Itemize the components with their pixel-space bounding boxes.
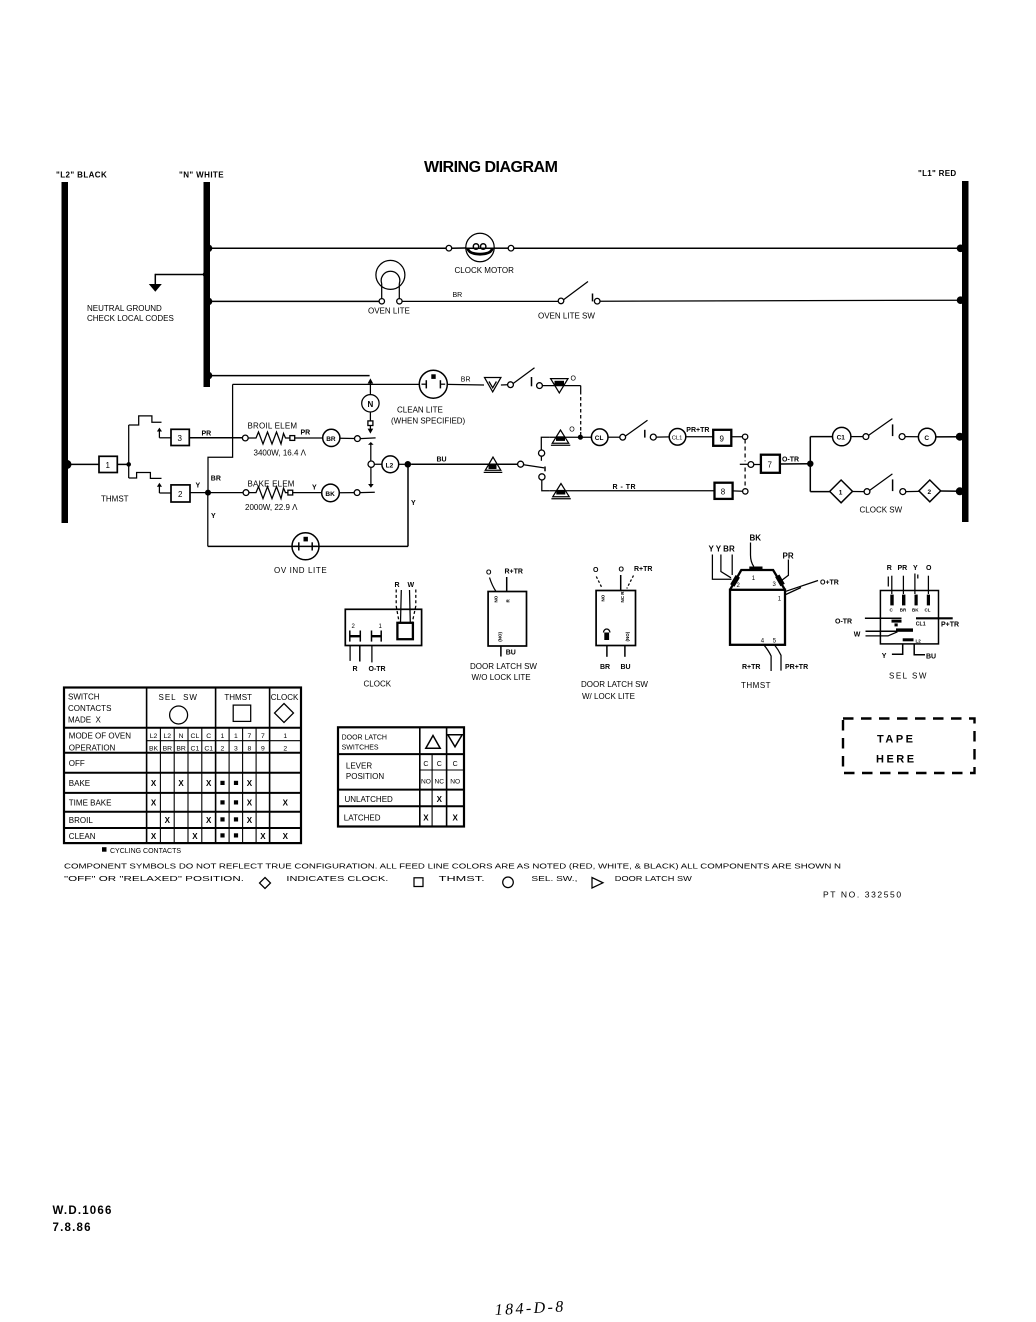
value label 3400W 16.4 ohm	[254, 449, 307, 458]
table door latch switches grid	[338, 727, 464, 826]
svg-text:3400W, 16.4 Λ: 3400W, 16.4 Λ	[254, 449, 307, 458]
svg-text:L2: L2	[916, 638, 922, 643]
contact 3 moving arm arrow	[157, 428, 171, 438]
svg-text:X: X	[247, 799, 253, 808]
svg-text:X: X	[247, 779, 253, 788]
svg-text:NC: NC	[435, 779, 445, 786]
svg-text:O: O	[619, 567, 625, 574]
net L1 bus label	[918, 169, 956, 178]
svg-text:BR: BR	[461, 376, 471, 383]
wire clock motor to L1 bus	[494, 245, 964, 253]
svg-text:R+TR: R+TR	[742, 664, 760, 671]
ground tap wire from N bus	[155, 271, 209, 284]
svg-text:CLOCK MOTOR: CLOCK MOTOR	[455, 266, 515, 275]
table mode sub-row B codes	[149, 746, 287, 753]
ground symbol (neutral ground)	[149, 284, 162, 292]
svg-text:Y: Y	[882, 653, 887, 660]
wire CL1 to box 9	[686, 436, 713, 438]
svg-text:Y: Y	[196, 483, 201, 490]
node L2 circle	[374, 456, 411, 473]
svg-text:BK: BK	[325, 491, 335, 498]
svg-text:BK: BK	[912, 608, 919, 613]
svg-text:CL: CL	[191, 733, 200, 740]
wire clean lite branch node PR	[233, 384, 420, 438]
sel sw upper contact to CL row	[539, 437, 550, 461]
svg-text:1: 1	[379, 624, 383, 630]
svg-text:X: X	[283, 832, 289, 841]
connector box 7	[761, 455, 780, 473]
caption DOOR LATCH SW W/ LOCK LITE	[581, 680, 648, 701]
svg-text:O: O	[926, 565, 932, 572]
receptacle arrow down (element plug)	[368, 467, 374, 487]
svg-text:INDICATES CLOCK.: INDICATES CLOCK.	[286, 874, 388, 883]
svg-text:R: R	[353, 666, 358, 673]
svg-text:CONTACTS: CONTACTS	[68, 704, 111, 713]
svg-text:X: X	[165, 816, 171, 825]
svg-text:BR: BR	[163, 746, 173, 753]
svg-text:HERE: HERE	[876, 754, 917, 766]
contact 2 moving arm arrow	[157, 483, 171, 493]
svg-text:TAPE: TAPE	[877, 734, 916, 746]
label PT NO 332550	[823, 890, 903, 900]
svg-text:NEUTRAL GROUND: NEUTRAL GROUND	[87, 304, 162, 313]
node diamond 1	[830, 480, 853, 503]
net L2 bus label	[56, 171, 107, 180]
svg-text:BU: BU	[506, 650, 516, 657]
connector box 9	[713, 430, 731, 446]
svg-text:SWITCHES: SWITCHES	[342, 745, 379, 752]
svg-text:BK: BK	[750, 534, 762, 543]
svg-text:OFF: OFF	[69, 759, 85, 768]
footnote cycling contacts	[102, 847, 181, 855]
svg-text:2: 2	[221, 746, 225, 753]
svg-text:SEL SW: SEL SW	[889, 672, 928, 681]
clock motor left terminal	[446, 245, 452, 251]
svg-text:"L1" RED: "L1" RED	[918, 169, 956, 178]
svg-text:DOOR LATCH: DOOR LATCH	[342, 735, 387, 742]
label Y (box2 output)	[196, 483, 201, 490]
node CL1 circle	[669, 429, 686, 446]
wire BR node to receptacle	[340, 436, 376, 442]
wire to clock motor	[452, 247, 466, 249]
svg-text:BROIL ELEM: BROIL ELEM	[248, 421, 298, 430]
thermostat contact box 2	[171, 485, 190, 502]
resistor BROIL ELEM	[248, 432, 294, 444]
wire diamond 2 to L1 bus	[941, 487, 964, 495]
door latch switch triangle (clean row, open)	[485, 378, 501, 392]
svg-text:C: C	[924, 435, 929, 442]
svg-text:O: O	[486, 570, 492, 577]
svg-text:DOOR LATCH SW: DOOR LATCH SW	[615, 874, 693, 883]
net N bus (white feed line)	[204, 182, 211, 387]
svg-text:LEVER: LEVER	[346, 761, 372, 770]
svg-text:MADE X: MADE X	[68, 716, 102, 725]
door latch switch triangle (R-TR row)	[551, 484, 570, 499]
svg-text:7: 7	[248, 733, 252, 740]
svg-text:2: 2	[737, 583, 741, 589]
table header CLOCK with diamond symbol	[271, 693, 299, 723]
svg-text:3: 3	[773, 582, 777, 588]
wire to C	[905, 436, 918, 438]
thermostat lead PR	[782, 560, 789, 581]
legend note line 1	[64, 861, 841, 870]
svg-text:O-TR: O-TR	[782, 456, 799, 463]
svg-text:R: R	[506, 599, 511, 603]
svg-text:(NO): (NO)	[498, 632, 503, 642]
door latch sw w lock lite labels	[593, 566, 652, 574]
table header SWITCH CONTACTS MADE X	[68, 693, 111, 725]
wire box1 to capillary junction	[117, 425, 131, 478]
wire to diamond 2	[906, 490, 919, 492]
wire to C1	[810, 436, 832, 438]
node N receptacle arrow up	[368, 378, 374, 394]
node BR circle	[323, 429, 340, 446]
thermostat THMST body	[730, 567, 785, 645]
wire broil elem to BR node	[295, 437, 323, 439]
svg-text:NO: NO	[494, 595, 499, 602]
sel sw lower contact to R-TR row	[539, 474, 550, 491]
door latch w pins (rotated tags)	[601, 591, 631, 642]
svg-text:W/ LOCK LITE: W/ LOCK LITE	[582, 692, 635, 701]
svg-text:THMST: THMST	[741, 681, 771, 690]
wire R-TR row	[550, 484, 715, 491]
clock motor right terminal	[508, 245, 514, 251]
wire C to L1 bus	[936, 433, 964, 441]
connector DOOR LATCH SW W/ LOCK LITE body	[596, 591, 635, 646]
svg-text:BU: BU	[926, 653, 936, 660]
svg-text:CLOCK SW: CLOCK SW	[860, 506, 903, 515]
lamp OV IND LITE (plug symbol)	[292, 533, 319, 560]
svg-text:OVEN LITE: OVEN LITE	[368, 306, 410, 315]
table row CLEAN with X marks	[69, 832, 289, 841]
svg-text:BR: BR	[600, 664, 610, 671]
legend note line 2	[64, 874, 693, 889]
svg-text:X: X	[206, 779, 212, 788]
svg-text:CLOCK: CLOCK	[364, 680, 392, 689]
label W.D.1066 date	[53, 1205, 113, 1234]
svg-text:O-TR: O-TR	[369, 666, 386, 673]
svg-text:"N" WHITE: "N" WHITE	[179, 171, 224, 180]
svg-text:X: X	[453, 814, 459, 823]
wire box 7 to clock sw branch	[780, 437, 814, 492]
sel sw body	[880, 591, 938, 644]
svg-text:R: R	[887, 565, 892, 572]
svg-text:OVEN LITE SW: OVEN LITE SW	[538, 312, 595, 321]
svg-text:184-D-8: 184-D-8	[494, 1298, 566, 1319]
svg-text:2: 2	[283, 746, 287, 753]
handwritten plate number 184-D-8	[494, 1298, 566, 1319]
svg-text:DOOR LATCH SW: DOOR LATCH SW	[581, 680, 648, 689]
wire to diamond 1	[810, 491, 830, 493]
wire capillary to contact 2	[129, 473, 162, 479]
clock leads below	[350, 646, 372, 663]
svg-text:BROIL: BROIL	[69, 816, 94, 825]
svg-text:1: 1	[106, 461, 111, 470]
svg-text:X: X	[437, 795, 443, 804]
svg-text:PR: PR	[898, 565, 908, 572]
thermostat THMST pictorial labels	[709, 534, 839, 671]
table header THMST with square symbol	[224, 693, 252, 721]
svg-text:7.8.86: 7.8.86	[53, 1222, 92, 1234]
sel sw top leads	[888, 574, 928, 595]
svg-text:Y: Y	[211, 513, 216, 520]
door latch w leads below, labels BR BU	[600, 646, 631, 672]
svg-text:W: W	[854, 631, 861, 638]
table row BAKE with X marks	[69, 779, 253, 788]
sel sw W leads	[854, 628, 913, 638]
svg-text:"L2" BLACK: "L2" BLACK	[56, 171, 107, 180]
svg-text:1: 1	[234, 733, 238, 740]
selector switch sel sw contact (BU blade)	[518, 461, 545, 471]
svg-text:NO: NO	[450, 779, 460, 786]
svg-text:5: 5	[773, 639, 777, 645]
resistor BAKE ELEM	[249, 487, 293, 499]
sel sw O-TR lead	[835, 618, 902, 626]
svg-text:LATCHED: LATCHED	[344, 814, 381, 823]
svg-text:BAKE: BAKE	[69, 779, 90, 788]
switch clock sw upper	[851, 419, 905, 440]
connector CLOCK labels R W	[395, 582, 415, 589]
door latch sw w lock lite leads	[596, 575, 633, 591]
box 7 left terminal	[748, 462, 761, 468]
svg-text:BR: BR	[211, 475, 221, 482]
svg-text:C: C	[437, 761, 442, 768]
svg-text:O+TR: O+TR	[820, 580, 839, 587]
svg-text:7: 7	[768, 461, 773, 470]
svg-text:X: X	[423, 814, 429, 823]
door latch wo pins (rotated tags)	[494, 595, 511, 642]
wire OV IND LITE loop	[208, 464, 416, 546]
table row BROIL with X marks	[69, 816, 253, 825]
door latch table row LATCHED	[344, 814, 459, 823]
svg-text:WIRING DIAGRAM: WIRING DIAGRAM	[424, 159, 558, 176]
svg-text:DOOR LATCH SW: DOOR LATCH SW	[470, 662, 537, 671]
label OV IND LITE	[274, 566, 327, 575]
table header SEL SW with circle symbol	[159, 693, 198, 724]
connector CLOCK body	[345, 609, 421, 645]
svg-text:W: W	[408, 582, 415, 589]
switch after CL	[608, 420, 669, 440]
svg-text:THMST: THMST	[101, 495, 129, 504]
svg-text:N: N	[179, 733, 184, 740]
svg-text:4: 4	[761, 639, 765, 645]
door latch switch triangle (BU row)	[484, 457, 503, 472]
caption THMST	[741, 681, 771, 690]
sel sw Y lead	[882, 644, 903, 660]
svg-text:BU: BU	[621, 664, 631, 671]
svg-text:X: X	[151, 799, 157, 808]
svg-text:O: O	[593, 567, 599, 574]
wire box 8 to link terminal	[733, 489, 748, 494]
label BAKE ELEM	[248, 479, 295, 488]
svg-text:R - TR: R - TR	[613, 484, 637, 491]
svg-text:N: N	[368, 400, 374, 409]
svg-text:NC R: NC R	[620, 591, 625, 603]
connector DOOR LATCH SW W/O LOCK LITE body	[488, 592, 526, 647]
svg-text:C1: C1	[837, 435, 846, 442]
wire BU from L2 node to selector switch	[411, 457, 518, 465]
svg-text:8: 8	[721, 487, 726, 496]
door latch switch triangle (CL row) with O	[551, 427, 575, 446]
svg-text:7: 7	[261, 733, 265, 740]
door latch sw wo lock lite labels	[486, 569, 523, 577]
svg-text:Y: Y	[312, 485, 317, 492]
svg-text:X: X	[247, 816, 253, 825]
door latch wo lead below, label BU	[501, 646, 516, 657]
net L2 bus (black feed line)	[62, 182, 69, 523]
svg-text:PR: PR	[783, 552, 794, 561]
svg-text:CL: CL	[925, 608, 931, 613]
svg-text:9: 9	[261, 746, 265, 753]
label Y (after bake elem)	[312, 485, 317, 492]
svg-text:"OFF" OR "RELAXED" POSITION.: "OFF" OR "RELAXED" POSITION.	[64, 874, 244, 883]
svg-text:X: X	[192, 832, 198, 841]
clock motor square	[397, 623, 413, 639]
svg-text:UNLATCHED: UNLATCHED	[345, 795, 394, 804]
svg-text:1: 1	[778, 596, 782, 602]
clock contact pin 1	[372, 624, 383, 642]
svg-text:L2: L2	[386, 462, 394, 469]
door latch switch triangle (clean row, NC)	[542, 375, 580, 393]
svg-text:3: 3	[234, 746, 238, 753]
svg-text:BR: BR	[900, 608, 907, 613]
clock motor	[466, 233, 494, 261]
label PR (box3 output)	[202, 431, 212, 438]
label THMST	[101, 495, 129, 504]
label OVEN LITE	[368, 306, 410, 315]
svg-text:Y Y BR: Y Y BR	[709, 545, 735, 554]
title WIRING DIAGRAM	[424, 159, 558, 176]
svg-text:1: 1	[221, 733, 225, 740]
sel sw top pins C BR BK CL	[890, 595, 931, 613]
label PR+TR	[686, 427, 709, 434]
svg-text:PR+TR: PR+TR	[686, 427, 709, 434]
svg-text:C: C	[206, 733, 211, 740]
thermostat leads O+TR	[786, 581, 818, 595]
svg-text:PT NO. 332550: PT NO. 332550	[823, 890, 903, 900]
caption DOOR LATCH SW W/O LOCK LITE	[470, 662, 537, 682]
wire bake elem to BK node	[293, 492, 322, 494]
wire BR riser (bake junction to clean branch)	[208, 438, 233, 493]
svg-text:CLOCK: CLOCK	[271, 693, 299, 702]
table row TIME BAKE with X marks	[69, 799, 289, 808]
svg-text:2: 2	[178, 490, 183, 499]
node N square terminal	[368, 412, 373, 426]
label BROIL ELEM	[248, 421, 298, 430]
switch clean lite circuit	[508, 368, 543, 389]
svg-text:C: C	[423, 761, 428, 768]
wire clean lite feeder from N bus	[205, 372, 370, 380]
svg-text:X: X	[178, 779, 184, 788]
svg-text:L2: L2	[164, 733, 172, 740]
svg-text:(WHEN SPECIFIED): (WHEN SPECIFIED)	[391, 417, 466, 426]
thermostat leads R+TR PR+TR	[764, 645, 781, 671]
sel sw CL1 pin and PR+TR lead	[916, 618, 959, 628]
broil element left terminal	[242, 435, 248, 441]
wire BK node to receptacle	[339, 490, 375, 496]
svg-text:W/O LOCK LITE: W/O LOCK LITE	[472, 673, 531, 682]
wire CL row to CL node	[550, 435, 592, 440]
caption SEL SW	[889, 672, 928, 681]
labels R and O-TR below clock	[353, 666, 386, 673]
selector switch SEL SW labels R PR Y O	[887, 565, 932, 572]
thermostat contact box 3	[171, 429, 189, 445]
label OVEN LITE SW	[538, 312, 595, 321]
wire box3 to broil element	[189, 437, 245, 439]
svg-text:O-TR: O-TR	[835, 618, 852, 625]
node diamond 2	[919, 480, 941, 502]
thermostat contact block: wire from L2 bus	[63, 460, 100, 469]
node N arrow down	[368, 426, 374, 434]
wire box2 to bake element, junction	[190, 490, 246, 496]
svg-text:C: C	[890, 608, 894, 613]
wire to clean sw contact	[501, 384, 508, 386]
svg-text:X: X	[151, 779, 157, 788]
svg-text:X: X	[206, 816, 212, 825]
svg-text:X: X	[151, 832, 157, 841]
svg-text:PR: PR	[202, 431, 212, 438]
table switch contacts grid	[64, 688, 301, 844]
switch OVEN LITE SW	[558, 282, 600, 305]
bake element left terminal	[243, 490, 249, 496]
connector CLOCK leads	[396, 590, 416, 623]
door latch table header	[342, 735, 387, 752]
label CLOCK SW	[860, 506, 903, 515]
svg-text:BAKE ELEM: BAKE ELEM	[248, 479, 295, 488]
svg-text:CL: CL	[595, 435, 604, 442]
svg-text:CHECK LOCAL CODES: CHECK LOCAL CODES	[87, 314, 174, 323]
svg-text:L2: L2	[150, 733, 158, 740]
wire Y drop to ov ind lite row	[208, 493, 216, 547]
svg-text:CLEAN LITE: CLEAN LITE	[397, 406, 443, 415]
svg-text:NO: NO	[601, 594, 606, 601]
svg-text:(NO): (NO)	[625, 631, 630, 641]
svg-text:CYCLING CONTACTS: CYCLING CONTACTS	[110, 848, 181, 855]
connector box 8	[715, 483, 733, 499]
door latch table row UNLATCHED	[345, 795, 443, 804]
thermostat pin numbers	[737, 576, 782, 645]
door latch table LEVER POSITION	[346, 761, 384, 781]
receptacle arrow up (element plug)	[368, 442, 374, 461]
node C circle	[918, 428, 935, 445]
svg-text:1: 1	[839, 490, 843, 497]
wire oven lite sw to L1 bus	[600, 296, 964, 304]
svg-text:NO: NO	[421, 779, 431, 786]
thermostat lead BK	[751, 543, 754, 567]
svg-text:R: R	[395, 582, 400, 589]
svg-text:BR: BR	[176, 746, 186, 753]
svg-text:SWITCH: SWITCH	[68, 693, 100, 702]
svg-text:R+TR: R+TR	[634, 566, 652, 573]
svg-text:9: 9	[720, 434, 725, 443]
svg-text:BR: BR	[453, 292, 463, 299]
node CL circle	[591, 429, 608, 446]
table row MODE OF OVEN OPERATION	[69, 732, 131, 753]
svg-text:CL1: CL1	[672, 436, 683, 442]
table row OFF	[69, 759, 85, 768]
svg-text:W.D.1066: W.D.1066	[53, 1205, 113, 1217]
svg-text:MODE OF OVEN: MODE OF OVEN	[69, 732, 131, 741]
net L1 bus (red feed line)	[962, 181, 969, 522]
svg-text:P+TR: P+TR	[941, 622, 959, 629]
wire clock motor row from N bus	[205, 245, 446, 253]
svg-text:X: X	[283, 799, 289, 808]
oven lite lamp	[376, 260, 405, 304]
net N bus label	[179, 171, 224, 180]
svg-text:BK: BK	[149, 746, 159, 753]
caption CLOCK	[364, 680, 392, 689]
svg-text:TIME BAKE: TIME BAKE	[69, 799, 112, 808]
